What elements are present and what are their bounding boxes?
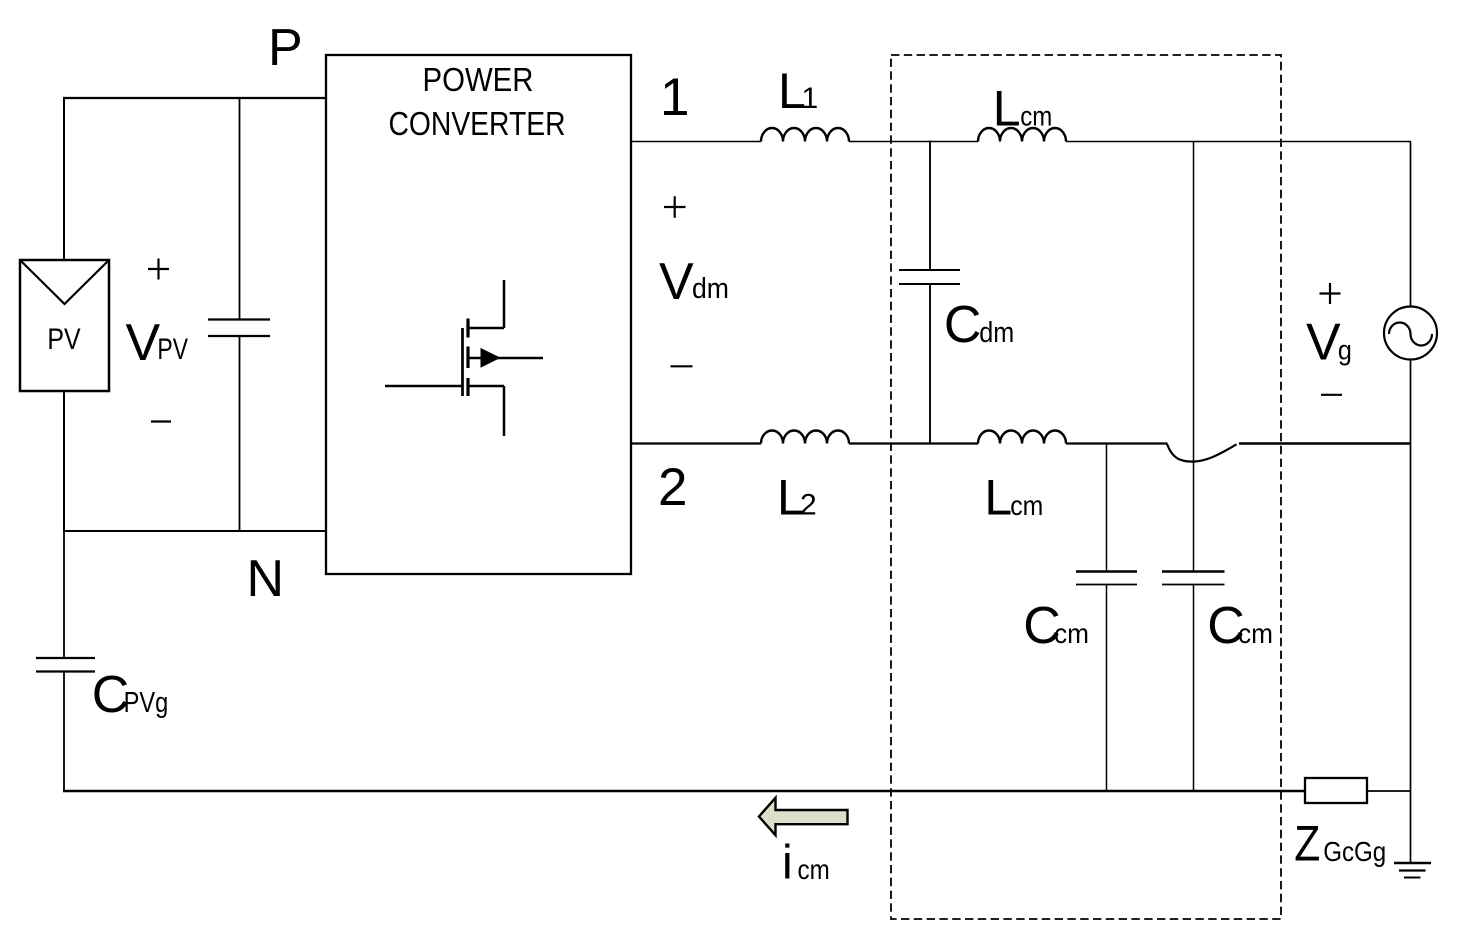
svg-text:i: i xyxy=(782,837,793,890)
wire: Cdm top lead from wire 1 xyxy=(929,141,931,271)
capacitor Ccm left xyxy=(1076,570,1137,573)
svg-text:C: C xyxy=(944,296,982,354)
svg-text:2: 2 xyxy=(658,458,687,517)
wire 2: converter output 2 to L2 xyxy=(631,442,761,444)
svg-text:L: L xyxy=(993,81,1021,137)
svg-text:1: 1 xyxy=(802,82,819,115)
minus sign of Vg xyxy=(1321,394,1342,396)
wire: Lcm-bottom to crossover hop xyxy=(1066,442,1168,444)
inductor Lcm (top) xyxy=(978,128,1066,142)
minus sign of V_PV xyxy=(151,420,171,422)
svg-text:dm: dm xyxy=(692,273,729,305)
svg-text:dm: dm xyxy=(979,317,1014,349)
resistor Z_GcGg xyxy=(1305,778,1367,803)
svg-text:cm: cm xyxy=(1238,618,1273,649)
wire 1: converter output 1 to L1 xyxy=(631,141,761,143)
wire: right vertical from wire1 down to Vg xyxy=(1410,142,1412,307)
wire: Ccm-left bottom lead to ground bus xyxy=(1106,585,1108,792)
wire: left vertical from P wire down to PV module top xyxy=(63,97,65,261)
svg-text:cm: cm xyxy=(1054,618,1089,649)
wire: Vg bottom to wire 2 right end and down to ground xyxy=(1410,360,1412,864)
svg-text:Z: Z xyxy=(1294,816,1320,872)
svg-text:PV: PV xyxy=(157,333,188,366)
wire: CPVg top lead from N node xyxy=(63,531,65,658)
wire: Lcm-top to grid top-right corner xyxy=(1066,141,1411,143)
wire: DC-link capacitor bottom lead xyxy=(239,336,241,531)
svg-text:CONVERTER: CONVERTER xyxy=(389,105,566,142)
svg-text:V: V xyxy=(126,314,161,372)
capacitor CPVg xyxy=(36,658,95,672)
svg-text:P: P xyxy=(268,19,303,77)
wire: L2 to Lcm-bottom xyxy=(849,442,978,444)
svg-text:L: L xyxy=(984,470,1012,526)
wire: hop to grid bottom-right xyxy=(1239,442,1411,445)
inductor L1 xyxy=(761,128,849,142)
wire: CPVg bottom lead to ground bus xyxy=(63,672,65,793)
ground symbol xyxy=(1394,862,1431,865)
PV module xyxy=(20,260,109,391)
svg-text:V: V xyxy=(1306,314,1341,372)
svg-text:2: 2 xyxy=(800,489,817,522)
EMI filter dashed boundary box xyxy=(891,55,1281,919)
svg-text:V: V xyxy=(659,253,694,311)
wire: DC-link capacitor top lead xyxy=(239,97,241,320)
capacitor C_dc (PV link capacitor) xyxy=(208,320,270,337)
transistor Q1 (MOSFET inside converter) xyxy=(385,280,543,436)
wire: Cdm bottom lead to wire 2 xyxy=(929,284,931,444)
plus sign of V_PV xyxy=(148,259,169,280)
svg-text:PV: PV xyxy=(47,323,80,356)
power converter box U1 xyxy=(326,55,631,574)
wire crossover hop over Ccm-right branch xyxy=(1167,444,1237,462)
svg-text:1: 1 xyxy=(660,68,689,127)
svg-text:N: N xyxy=(247,550,285,608)
plus sign of Vg xyxy=(1320,283,1341,304)
capacitor Ccm right xyxy=(1162,570,1225,573)
AC source Vg xyxy=(1384,307,1437,360)
svg-text:GcGg: GcGg xyxy=(1323,836,1386,867)
svg-text:cm: cm xyxy=(1010,490,1043,521)
plus sign of V_dm xyxy=(664,196,686,217)
wire: L1 to Lcm-top xyxy=(849,141,978,143)
inductor Lcm (bottom) xyxy=(978,431,1066,444)
svg-text:POWER: POWER xyxy=(423,61,534,98)
wire: Ccm-left top lead from wire 2 xyxy=(1106,444,1108,572)
wire: PV module bottom to N wire xyxy=(63,391,65,532)
inductor L2 xyxy=(761,431,849,444)
svg-text:g: g xyxy=(1338,335,1352,366)
wire: Ccm-right lead from wire 1 down through hop xyxy=(1193,142,1195,572)
svg-text:cm: cm xyxy=(1020,101,1052,132)
wire: Ccm-right bottom lead to ground bus xyxy=(1193,585,1195,792)
wire P: top-left horizontal from PV branch to converter xyxy=(63,97,327,99)
ground bus: bottom horizontal wire xyxy=(63,790,1305,792)
current arrow i_cm xyxy=(759,798,848,835)
wire N: bottom horizontal from PV to converter xyxy=(63,530,327,532)
capacitor Cdm xyxy=(899,270,960,284)
wire: resistor to right vertical xyxy=(1367,790,1411,792)
svg-text:cm: cm xyxy=(798,854,830,885)
svg-text:PVg: PVg xyxy=(124,687,169,719)
minus sign of V_dm xyxy=(671,365,693,367)
